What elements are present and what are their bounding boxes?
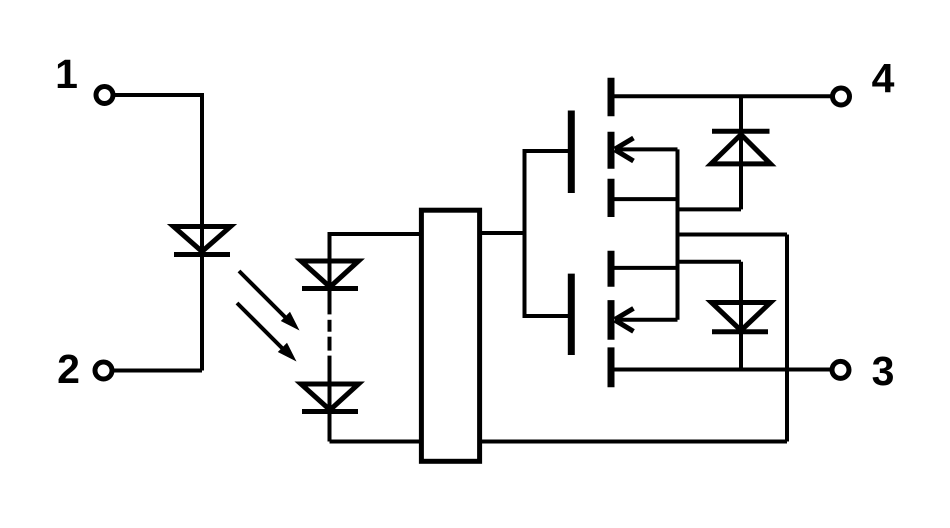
transistor Q2 gate bar: [568, 274, 575, 355]
transistor Q2 channel segment body: [608, 300, 615, 340]
wire right drop vertical: [785, 235, 789, 442]
transistor Q1 body arrow: [615, 138, 678, 161]
photodiode PD1 lead: [328, 260, 332, 314]
diode D2 lead: [739, 96, 743, 209]
wire photodiode top to driver block: [330, 234, 424, 262]
wire gate lead Q1: [523, 149, 569, 153]
terminal pin 4: [833, 88, 850, 105]
transistor Q1 channel segment body: [608, 132, 615, 169]
diode D2 cathode bar: [712, 129, 770, 134]
terminal pin 3: [832, 361, 849, 378]
terminal pin 2: [95, 362, 112, 379]
driver block U1: [421, 210, 479, 461]
LED D1 lead through symbol: [200, 226, 204, 371]
light arrow 1: [239, 271, 300, 331]
photodiode PD2 triangle: [301, 384, 359, 410]
wire common node to diode D2 anode: [678, 207, 742, 211]
dashed wire photodiode stack: [328, 320, 332, 351]
diode D3 cathode bar: [712, 329, 768, 334]
wire gate lead Q2: [523, 314, 569, 318]
photodiode PD1 cathode bar: [302, 286, 358, 291]
wire common node to right drop: [678, 233, 788, 237]
wire driver output to gate bus: [480, 231, 525, 235]
LED D1 cathode bar: [174, 252, 230, 257]
wire bottom rail: [480, 440, 787, 444]
svg-text:2: 2: [57, 346, 80, 392]
wire drain Q1 to pin 4: [611, 94, 833, 98]
LED D1 triangle: [174, 227, 231, 252]
wire source Q2 to pin 3: [611, 368, 832, 372]
terminal pin 1: [96, 87, 113, 104]
svg-text:1: 1: [55, 51, 78, 97]
svg-text:4: 4: [872, 55, 895, 101]
wire pin1 to LED anode: [114, 95, 203, 226]
svg-text:3: 3: [872, 348, 895, 394]
transistor Q1 channel segment source: [608, 179, 615, 217]
transistor Q1 gate bar: [568, 111, 575, 194]
wire photodiode bottom to driver block: [330, 440, 424, 444]
gate bus vertical: [523, 149, 527, 318]
diode D3 triangle: [712, 303, 771, 331]
wire LED cathode to pin2: [112, 369, 203, 373]
transistor Q2 channel segment drain: [608, 251, 615, 287]
light arrow 2: [237, 303, 297, 362]
wire Q2 drain stub: [611, 266, 678, 270]
diode D3 lead: [739, 262, 743, 370]
photodiode PD2 lead: [328, 356, 332, 442]
diode D2 triangle: [711, 135, 771, 164]
wire common node to diode D3: [678, 260, 742, 264]
transistor Q2 channel segment source: [608, 347, 615, 387]
photodiode PD2 cathode bar: [302, 409, 358, 414]
wire Q1 source stub: [611, 197, 678, 201]
transistor Q2 body arrow: [615, 308, 678, 331]
wire body tie vertical: [676, 149, 680, 319]
transistor Q1 channel segment drain: [608, 78, 615, 116]
photodiode PD1 triangle: [301, 261, 359, 287]
